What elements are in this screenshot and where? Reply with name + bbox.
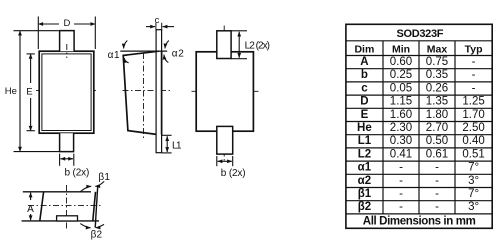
svg-text:1.80: 1.80 [426, 109, 448, 121]
svg-text:L1: L1 [358, 135, 372, 147]
terminal pad bottom view [57, 216, 78, 221]
dimension b arrow top view [218, 160, 232, 162]
svg-text:-: - [472, 56, 476, 68]
svg-text:He: He [5, 86, 17, 97]
svg-text:1.35: 1.35 [426, 96, 448, 108]
svg-text:-: - [472, 82, 476, 94]
svg-text:α1: α1 [358, 162, 372, 174]
dimension c arrows [146, 26, 155, 28]
dimension E top tick [27, 53, 35, 55]
svg-text:0.51: 0.51 [462, 148, 484, 160]
svg-text:β1: β1 [358, 188, 372, 200]
dimension b extension lines top view [216, 156, 218, 166]
svg-text:-: - [435, 201, 439, 213]
wire: vertical centerline front view [66, 42, 68, 150]
angle alpha1 lower arrow [124, 58, 129, 63]
angle alpha1 upper arrow [124, 41, 128, 49]
wire: horizontal centerline top view [192, 90, 259, 92]
svg-text:E: E [361, 109, 369, 121]
dimension A arrow [30, 193, 32, 200]
svg-text:0.26: 0.26 [426, 82, 448, 94]
svg-text:He: He [357, 122, 372, 134]
bottom pad top view [217, 126, 233, 154]
dimension L2 bottom tick [231, 58, 247, 60]
wire: vertical centerline top view [223, 26, 225, 161]
svg-text:0.75: 0.75 [426, 56, 448, 68]
svg-text:0.40: 0.40 [462, 135, 484, 147]
svg-text:L1: L1 [172, 141, 182, 152]
body inner rectangle front view [42, 54, 91, 131]
svg-text:-: - [399, 201, 403, 213]
svg-text:α2: α2 [358, 175, 371, 187]
dimension L1 arrow [166, 136, 168, 152]
svg-text:A: A [360, 56, 368, 68]
svg-text:Min: Min [392, 43, 410, 55]
svg-text:-: - [435, 162, 439, 174]
angle beta1 left arrow [81, 186, 92, 191]
svg-text:SOD323F: SOD323F [397, 28, 444, 40]
svg-text:3°: 3° [468, 175, 479, 187]
svg-text:L2 (2x): L2 (2x) [245, 41, 270, 52]
wire: centerline through tabs [66, 44, 68, 58]
body outline side view [123, 51, 159, 134]
angle beta2 left arrow [80, 224, 90, 228]
svg-text:α1: α1 [108, 50, 120, 61]
dimension E arrow line [30, 54, 32, 83]
wire: horizontal centerline side view [123, 90, 171, 92]
table data rows [357, 56, 485, 213]
dimension D extension line right [94, 17, 96, 50]
svg-text:2.70: 2.70 [426, 122, 448, 134]
svg-text:b (2x): b (2x) [65, 167, 90, 178]
svg-text:0.35: 0.35 [426, 69, 448, 81]
dimension L2 top tick [231, 30, 247, 32]
svg-text:0.61: 0.61 [426, 148, 448, 160]
svg-text:β2: β2 [358, 201, 371, 213]
body outline bottom view [40, 192, 96, 221]
bottom seating line bottom view [22, 220, 99, 222]
svg-text:1.15: 1.15 [390, 96, 412, 108]
bottom lead tab front view [60, 133, 74, 151]
lead strip side view [156, 30, 162, 153]
svg-text:Max: Max [427, 43, 448, 55]
wire: vertical centerline side view [143, 53, 145, 140]
svg-text:c: c [361, 82, 368, 94]
table row lines [346, 68, 492, 70]
svg-text:-: - [472, 69, 476, 81]
angle alpha2 upper arrow [165, 41, 169, 49]
dimension He bottom extension line [14, 151, 60, 153]
svg-text:A: A [27, 204, 34, 215]
svg-text:b (2x): b (2x) [221, 168, 246, 179]
svg-text:β2: β2 [91, 230, 103, 241]
svg-text:-: - [399, 175, 403, 187]
svg-text:0.30: 0.30 [390, 135, 412, 147]
dimension D arrow line [38, 23, 59, 25]
dimension b arrow front view [60, 158, 73, 160]
svg-text:β1: β1 [98, 172, 110, 183]
wire: vertical centerline bottom view [66, 185, 68, 229]
dimension c extension lines [155, 23, 157, 31]
dimension L2 arrow [238, 32, 240, 58]
svg-text:-: - [399, 188, 403, 200]
lead line bottom view [95, 185, 98, 228]
svg-text:-: - [435, 188, 439, 200]
svg-text:-: - [399, 162, 403, 174]
table header separator lines [346, 40, 492, 42]
table column lines [382, 41, 384, 214]
table outer border [346, 24, 492, 228]
svg-text:1.70: 1.70 [462, 109, 484, 121]
angle alpha2 lower arrow [164, 55, 168, 63]
svg-text:c: c [155, 15, 160, 26]
svg-text:0.41: 0.41 [390, 148, 412, 160]
svg-text:3°: 3° [468, 201, 479, 213]
svg-text:α2: α2 [172, 49, 184, 60]
wire: horizontal centerline bottom view [28, 205, 101, 207]
svg-text:All Dimensions in mm: All Dimensions in mm [363, 215, 476, 227]
svg-text:0.05: 0.05 [390, 82, 412, 94]
wire: horizontal centerline front view [36, 90, 98, 92]
body rectangle top view [196, 52, 253, 131]
svg-text:1.60: 1.60 [390, 109, 412, 121]
svg-text:D: D [63, 18, 70, 29]
dimension D extension line left [37, 17, 39, 50]
svg-text:7°: 7° [468, 188, 479, 200]
dimension L1 top tick [162, 134, 172, 136]
dimension E bottom tick [27, 130, 35, 132]
svg-text:2.50: 2.50 [462, 122, 484, 134]
svg-text:0.50: 0.50 [426, 135, 448, 147]
dimension L1 bottom tick [162, 152, 172, 154]
horizontal reference line alpha [120, 50, 167, 52]
dimension b extension lines front view [59, 154, 61, 166]
angle beta1 right arrow [95, 181, 104, 186]
dimension He arrow line [19, 31, 21, 152]
svg-text:0.25: 0.25 [390, 69, 412, 81]
svg-text:0.60: 0.60 [390, 56, 412, 68]
svg-text:E: E [26, 86, 32, 97]
top reference line bottom view [23, 191, 91, 193]
body right edge on lead [161, 51, 163, 135]
svg-text:7°: 7° [468, 162, 479, 174]
svg-text:D: D [360, 96, 368, 108]
svg-text:1.25: 1.25 [462, 96, 484, 108]
dimension He top extension line [14, 30, 59, 32]
svg-text:L2: L2 [358, 148, 371, 160]
svg-text:2.30: 2.30 [390, 122, 412, 134]
svg-text:-: - [435, 175, 439, 187]
svg-text:Typ: Typ [465, 43, 483, 55]
body outer rectangle front view [39, 51, 94, 133]
svg-text:Dim: Dim [354, 43, 374, 55]
top lead tab front view [60, 31, 75, 52]
angle beta2 right arrow [96, 224, 104, 227]
top pad top view [217, 31, 231, 59]
svg-text:b: b [361, 69, 368, 81]
